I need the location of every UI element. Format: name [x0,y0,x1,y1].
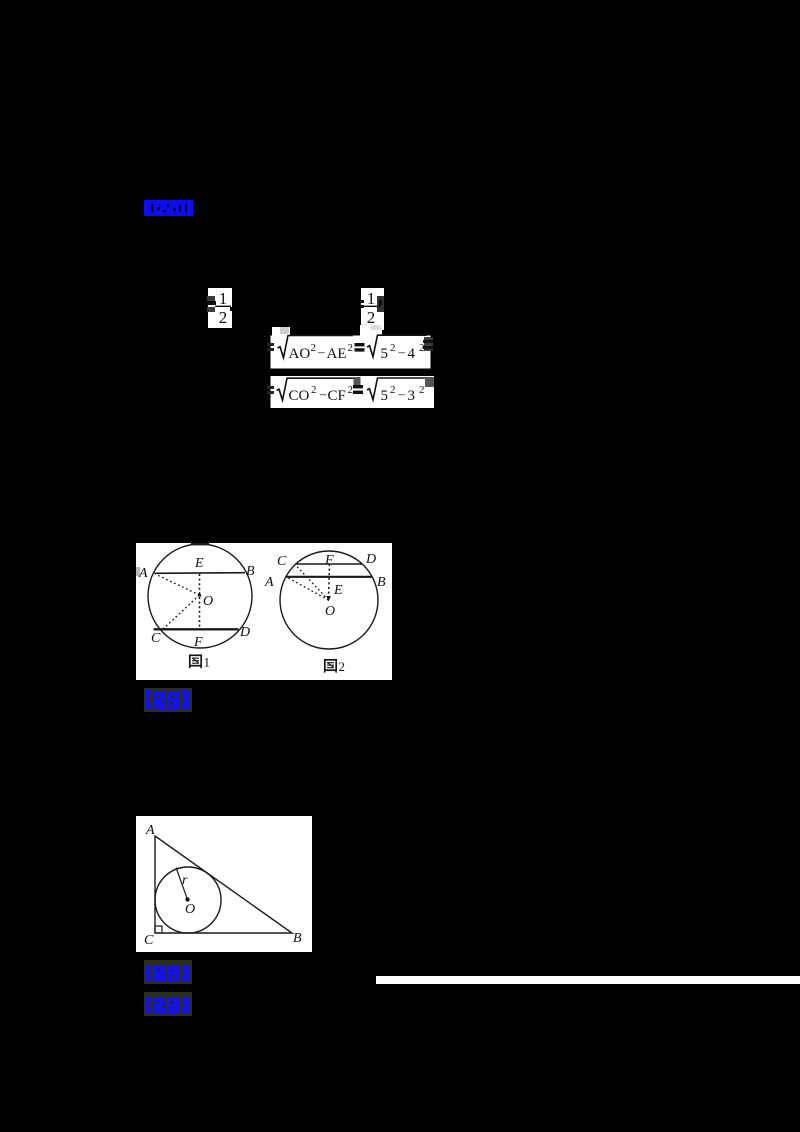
triangle ACB [155,836,292,933]
svg-text:2: 2 [348,342,354,354]
caption 图2 [324,659,345,674]
fraction bar [362,306,377,307]
svg-text:2: 2 [219,308,228,327]
svg-text:CF: CF [328,388,346,404]
comma blob dark [377,296,384,312]
svg-text:5: 5 [381,388,389,404]
trailing dark block [424,337,433,351]
svg-text:–: – [319,386,327,401]
fraction image =1/2 (second) [357,287,387,337]
equals sign dark [359,300,364,303]
svg-text:2: 2 [311,384,317,396]
svg-text:2: 2 [390,342,396,354]
equals sign dark [207,296,215,301]
radical 1 [277,378,354,400]
dotted EF line fig1 [199,574,201,629]
svg-text:A: A [138,566,148,581]
figure image 1: two circles 图1 图2 [136,543,392,680]
chord CD fig2 [296,563,363,565]
svg-text:2: 2 [311,342,317,354]
equals before (dark) [267,343,274,346]
radius r line [176,868,188,900]
svg-text:D: D [365,552,376,567]
radical 2 [367,378,427,400]
svg-text:2: 2 [339,659,346,674]
svg-text:A: A [145,823,155,838]
figure image 2: right triangle with inscribed circle [136,816,312,952]
svg-text:2: 2 [390,384,396,396]
svg-text:E: E [333,583,343,598]
svg-text:O: O [203,594,213,609]
svg-text:A: A [264,575,274,590]
radical nub 2 white [360,325,382,337]
right angle square at C [155,926,162,933]
radical 2 [367,335,427,357]
clipped dark arc at top of circle fig1 [191,543,209,545]
svg-text:O: O [185,902,195,917]
svg-text:C: C [151,631,161,646]
svg-text:E: E [194,556,204,571]
equals middle [353,385,363,388]
svg-text:5: 5 [381,346,389,362]
fraction image =1/2 (first) [204,287,234,329]
arrowhead at O fig1 [198,592,202,597]
svg-text:1: 1 [367,289,376,308]
gray block mid [354,377,361,385]
svg-text:1: 1 [219,289,228,308]
equals before (dark) [267,386,274,389]
svg-text:F: F [193,635,203,650]
dotted OC fig1 [163,595,200,629]
svg-text:D: D [239,625,250,640]
gray block right [425,377,434,387]
svg-text:AE: AE [327,346,347,362]
svg-text:F: F [324,553,334,568]
white body [271,336,431,369]
header H3 blue 点评 [144,959,192,985]
dotted O-A fig2 [287,577,329,600]
circle O (fig2) [280,551,378,649]
svg-text:4: 4 [408,346,416,362]
chord AB fig2 [286,576,372,578]
radical 1 [278,336,354,358]
dotted FO fig2 [329,564,330,600]
gray smudge left edge [136,567,140,576]
svg-text:–: – [398,386,406,401]
center dot O [185,897,189,901]
arrowhead at O fig2 [326,596,330,602]
svg-text:B: B [377,575,386,590]
circle O (fig1) [148,544,252,648]
dotted OC fig2 [295,565,329,601]
header H2 blue 解答 [144,687,192,713]
formula sqrt(CO^2-CF^2)=sqrt(5^2-3^2) [263,372,443,412]
radical nub 1 white [272,327,290,337]
svg-text:–: – [317,344,325,359]
svg-text:O: O [325,604,335,619]
white divider bar [376,976,800,984]
svg-text:2: 2 [419,384,425,396]
equals middle [355,343,365,346]
svg-text:C: C [277,554,287,569]
svg-text:AO: AO [289,346,311,362]
incircle O [155,867,221,933]
comma dot [230,307,233,311]
caption 图1 [189,655,210,670]
header H4 blue 考点 [144,991,192,1017]
white body [271,376,435,408]
dotted OA fig1 [155,574,200,595]
chord AB fig1 [155,572,246,575]
svg-text:B: B [246,564,255,579]
svg-text:2: 2 [348,384,354,396]
svg-text:1: 1 [204,655,211,670]
formula sqrt(AO^2-AE^2)=sqrt(5^2-4^2) [263,325,440,371]
svg-text:3: 3 [408,388,416,404]
svg-text:r: r [182,873,188,888]
chord CD fig1 [154,628,239,630]
fraction bar [215,306,231,307]
svg-text:C: C [144,933,154,948]
svg-text:CO: CO [289,388,310,404]
svg-text:–: – [398,344,406,359]
svg-text:B: B [293,931,302,946]
header H1 blue 分析 [143,198,195,218]
